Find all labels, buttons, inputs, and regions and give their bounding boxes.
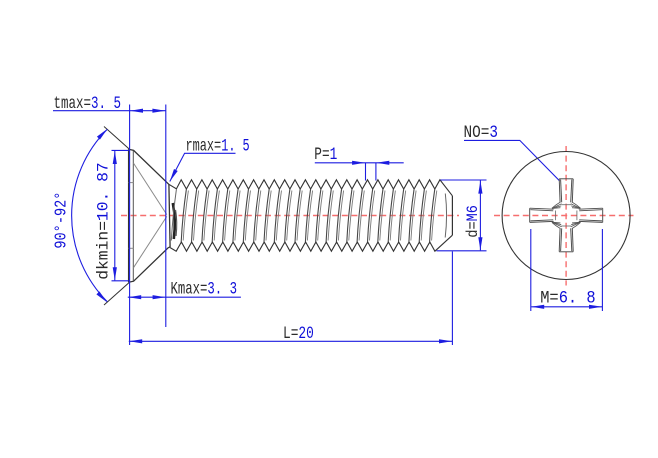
leader rmax=1.5	[170, 153, 236, 181]
label d=M6 (rotated)	[464, 205, 482, 237]
svg-text:tmax=: tmax=	[54, 94, 92, 114]
screw head (side view, countersunk)	[129, 149, 171, 282]
dimension d=M6	[437, 180, 487, 251]
phillips recess corner wings	[552, 202, 581, 228]
svg-text:3: 3	[489, 123, 498, 143]
svg-text:3. 3: 3. 3	[207, 280, 237, 300]
label 90°-92° (rotated)	[52, 192, 71, 249]
head circle (front view)	[502, 152, 630, 280]
svg-text:10. 87: 10. 87	[95, 162, 113, 221]
svg-text:rmax=: rmax=	[186, 136, 222, 156]
dimension P=1	[315, 163, 404, 181]
svg-text:M6: M6	[464, 205, 482, 221]
recess edge lines on head face	[129, 163, 167, 268]
svg-text:P=: P=	[314, 145, 329, 165]
thread runout at head	[171, 189, 176, 240]
dimension dkmin=10.87	[112, 150, 129, 280]
svg-text:dkmin=: dkmin=	[95, 221, 113, 280]
dimension L=20	[129, 252, 453, 346]
svg-text:6. 8: 6. 8	[559, 288, 596, 308]
svg-text:1: 1	[330, 145, 338, 165]
recess bottom (dark arc at cone apex)	[173, 203, 175, 239]
thread flank lines	[181, 189, 435, 242]
phillips recess cross arms	[530, 179, 603, 252]
label dkmin=10.87 (rotated)	[95, 162, 113, 280]
centerline: head view horizontal	[494, 215, 634, 217]
screw tip end face	[451, 196, 453, 235]
centerline: head view vertical	[565, 146, 567, 286]
cone angle extension lines	[104, 127, 130, 306]
svg-text:NO=: NO=	[464, 123, 490, 143]
centerline: screw axis	[121, 215, 459, 217]
thread profile bottom	[169, 235, 453, 251]
svg-text:90°-92°: 90°-92°	[52, 192, 71, 249]
svg-text:3. 5: 3. 5	[91, 94, 121, 114]
leader NO=3	[464, 140, 560, 181]
dimension tmax=3.5	[53, 105, 166, 346]
svg-text:d=: d=	[464, 221, 482, 237]
tip chamfer flank	[445, 194, 446, 238]
dimension Kmax=3.3	[128, 296, 241, 298]
thread profile top	[169, 180, 453, 196]
svg-text:L=: L=	[283, 324, 298, 344]
dimension M=6.8	[531, 229, 603, 311]
svg-text:Kmax=: Kmax=	[171, 280, 208, 300]
head face inner edge line	[132, 151, 134, 281]
svg-text:M=: M=	[540, 288, 559, 308]
svg-text:20: 20	[298, 324, 313, 344]
angle dimension 90°-92° arc	[72, 129, 108, 301]
svg-text:1. 5: 1. 5	[221, 136, 250, 156]
